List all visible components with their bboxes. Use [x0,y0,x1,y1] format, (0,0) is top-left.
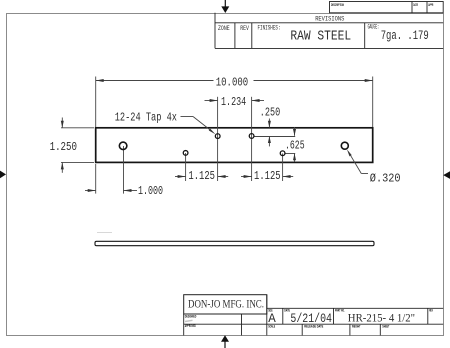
hole L large [119,142,127,150]
svg-text:DESIGNED: DESIGNED [185,314,197,318]
leader 12-24 Tap 4x [115,111,216,135]
svg-text:HR-215- 4 1/2": HR-215- 4 1/2" [348,310,415,324]
center mark right [443,171,450,179]
svg-text:1.125: 1.125 [188,169,215,183]
hole TR tap [249,134,254,139]
hole LL tap [183,151,188,156]
dimension 1.125 left [175,169,228,183]
svg-text:GAUGE:: GAUGE: [368,24,380,31]
extension line hole L large vertical [123,146,125,194]
extension line hole LL vertical [185,153,187,181]
plate outline (front view) [96,128,373,163]
svg-text:DESCRIPTION: DESCRIPTION [331,3,344,7]
svg-text:10.000: 10.000 [216,75,248,89]
dimension 1.250 [50,118,77,173]
extension line horizontal y=153.8 [285,153,295,155]
extension line hole LR vertical [282,153,284,181]
svg-text:.625: .625 [285,139,305,153]
svg-text:APPR: APPR [428,3,433,7]
svg-text:1.125: 1.125 [254,169,281,183]
extension line right of 10.000 [372,77,374,128]
center mark top [221,0,229,13]
svg-text:1.234: 1.234 [221,95,246,109]
dimension 1.000 [85,184,163,198]
title block bottom row (scale/release/weight/sheet) [184,324,444,335]
svg-text:REV: REV [429,309,433,313]
title block company box [184,295,267,314]
zone/rev/finishes/gauge row [215,23,443,49]
svg-text:REV: REV [240,25,249,32]
svg-text:7ga. .179: 7ga. .179 [381,28,429,43]
leader dia .320 [347,149,401,185]
revisions header row [215,13,443,49]
revision history strip above border [330,2,444,13]
svg-text:WEIGHT: WEIGHT [352,325,361,329]
svg-text:SCALE: SCALE [268,325,275,329]
svg-text:DATE: DATE [413,3,418,7]
svg-text:PART NO.: PART NO. [335,309,345,313]
extension line hole TL vertical [217,97,219,181]
edge view bar [95,241,374,245]
extension line left of 10.000 / 1.000 [95,77,97,194]
title block size/date/part/rev row [267,295,443,336]
svg-text:Ø.320: Ø.320 [370,171,401,185]
svg-text:12-24 Tap 4x: 12-24 Tap 4x [115,111,177,125]
svg-text:RELEASE DATE: RELEASE DATE [304,325,324,329]
center mark left [0,171,6,179]
dimension 10.000 [96,75,373,89]
dimension .250 [260,106,280,147]
svg-text:1.000: 1.000 [138,184,163,198]
svg-text:REVISIONS: REVISIONS [315,15,344,22]
extension lines 1.250 horizontal [61,128,94,163]
extension line hole TR vertical [251,97,253,181]
svg-text:ZONE: ZONE [218,25,230,32]
svg-text:APPROVED: APPROVED [185,324,196,328]
svg-text:RAW STEEL: RAW STEEL [290,29,351,44]
svg-text:1.250: 1.250 [50,140,77,154]
extension line horizontal y=135.4 [254,136,295,138]
svg-text:SHEET: SHEET [382,325,390,329]
scan smudge [97,232,112,234]
hole R large [341,142,348,149]
center mark bottom [221,335,229,348]
svg-text:FINISHES:: FINISHES: [258,24,281,31]
hole TL tap [215,134,220,139]
title block left rows (designed/approved) [184,314,242,335]
svg-text:.250: .250 [260,106,280,120]
hole LR tap [280,151,285,156]
dimension .625 [285,127,305,162]
svg-text:DON-JO MFG. INC.: DON-JO MFG. INC. [188,296,264,310]
dimension 1.125 right [241,169,293,183]
dimension 1.234 [205,95,265,109]
